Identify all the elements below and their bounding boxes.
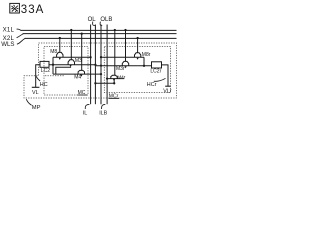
ground VLr bar [165,85,170,87]
junction WLS-M8 [59,37,61,39]
svg-text:HC: HC [40,82,48,88]
wire row line X1L [20,29,176,31]
capacitor box LC2 [40,61,49,67]
svg-text:M8: M8 [50,49,57,55]
junction M4r tap corner [113,82,115,84]
leader HCr [154,78,166,81]
junction bus3-M4 [100,73,102,75]
junction bus3-M8r [100,56,102,58]
junction X1L-M4r [114,29,116,31]
svg-text:VL: VL [32,90,39,96]
title figure number 33A [10,3,20,13]
svg-text:X1L: X1L [3,27,15,34]
wire M8r drain rail [101,56,144,58]
svg-text:MP: MP [32,105,41,111]
wire M4r tap to bus [95,79,114,84]
svg-text:OLB: OLB [100,17,112,23]
junction LC2 node [52,64,54,66]
svg-text:LC2: LC2 [41,68,50,74]
underline MCr [109,97,120,99]
leader hook ILB [102,104,106,109]
wire row line WLS [25,37,177,39]
junction bus4-M4r [106,77,108,79]
ground VL bar [32,86,40,88]
svg-text:IL: IL [83,110,88,116]
wire M8 drain rail [53,56,91,58]
junction bus2-rail [94,64,96,66]
svg-text:VLr: VLr [163,88,172,94]
wire LC2 to VL [36,65,40,88]
junction bus2-M4r tap [94,82,96,84]
wire bus line 4 [106,25,108,105]
svg-text:ILB: ILB [99,110,107,116]
wire LC2 output rail [49,65,152,66]
wire vertical M8r to LC2r rail [143,57,145,66]
junction bus1-M8 [89,56,91,58]
transistor M8 [57,38,63,60]
leader hook OLB [100,22,102,26]
svg-text:33A: 33A [21,4,44,16]
junction bus3-rail [100,64,102,66]
svg-text:M3r: M3r [116,66,125,72]
capacitor box LC2r [152,62,162,68]
leader X2L [17,34,24,38]
transistor M3r [122,30,128,68]
leader MP [26,99,31,105]
svg-text:OL: OL [88,17,97,23]
junction X1L-M3 [70,29,72,31]
underline MC [77,94,87,96]
wire M4 source rail [53,73,101,75]
wire M3 source stub [56,67,71,74]
transistor M4 [78,34,84,77]
svg-text:M3: M3 [75,58,82,64]
wire bus line 3 [100,25,102,105]
wire LC2r to VLr [162,65,169,86]
wire bus line 1 [90,25,92,105]
wire vertical to LC2 node [52,57,54,74]
junction X2L-M4 [81,33,83,35]
transistor M4r [111,30,117,81]
junction WLS-M8r [136,37,138,39]
wire bus line 2 [94,25,96,105]
leader WLS [17,38,25,44]
leader hook OL [93,22,95,26]
leader X1L [17,29,21,30]
boundary MC dashed box [44,47,88,95]
transistor M3 [68,30,74,67]
wire M4r source rail [107,78,124,80]
boundary MCr dashed box [104,47,170,93]
svg-text:LC2r: LC2r [150,69,161,75]
leader HC [36,76,40,81]
leader hook IL [85,104,89,109]
boundary dashed segment inner [45,75,64,77]
svg-text:M8r: M8r [142,52,151,58]
transistor M8r [135,38,141,60]
junction LC2r node [143,65,145,67]
svg-text:WLS: WLS [1,41,14,48]
wire row line X2L [23,33,177,35]
svg-text:HCr: HCr [147,82,157,88]
svg-text:M4: M4 [74,74,81,80]
junction X1L-M3r [124,29,126,31]
boundary MP dashed box [24,43,177,98]
